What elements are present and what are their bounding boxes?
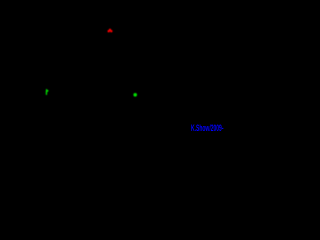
- green sprite arrow: [46, 89, 49, 95]
- green dot: [133, 93, 137, 97]
- svg-text:K.Show/2009-: K.Show/2009-: [191, 123, 224, 134]
- red marker cluster: [108, 29, 113, 33]
